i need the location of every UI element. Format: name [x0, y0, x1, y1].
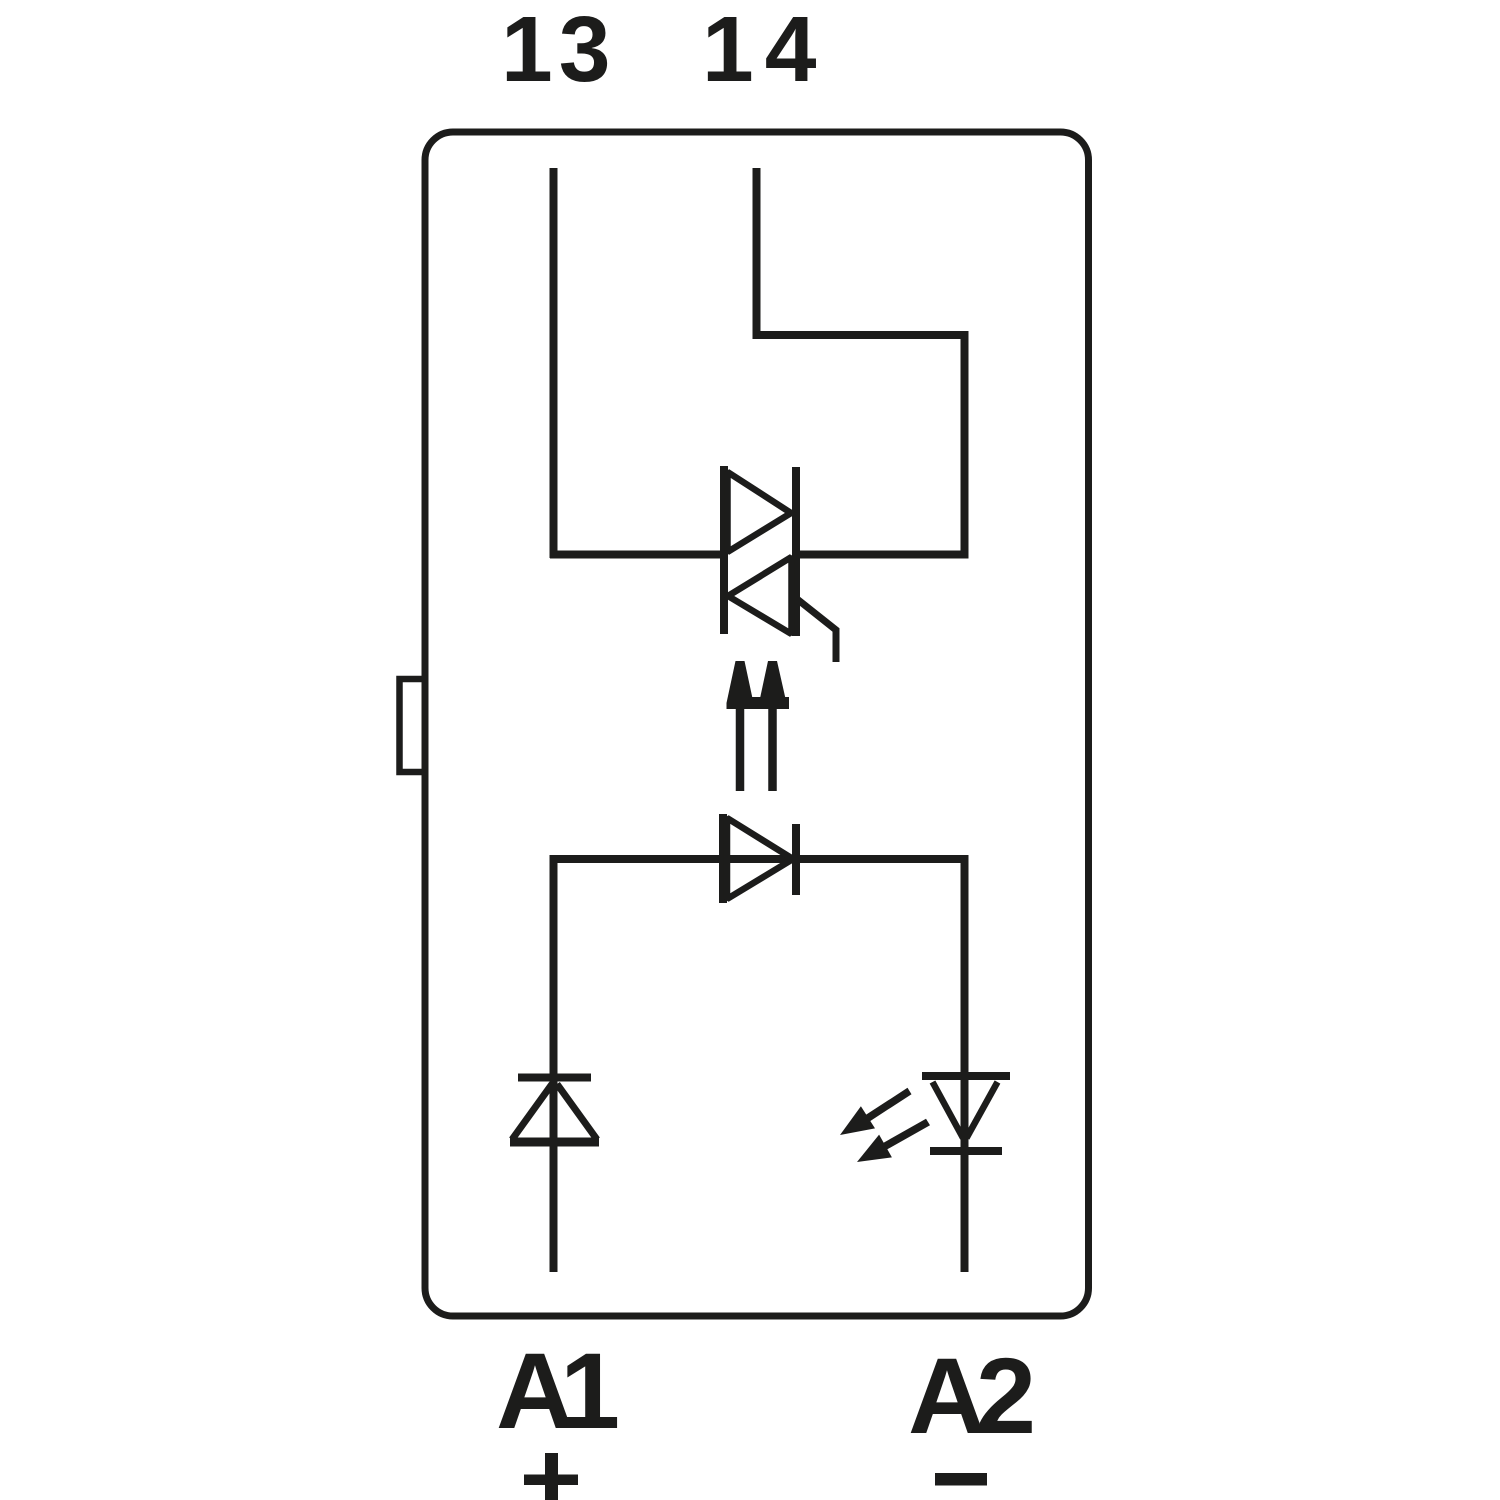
- series diode D1 cathode bar: [792, 824, 800, 895]
- LED arrow 2 head: [857, 1135, 892, 1162]
- wire 14 horizontal: [753, 331, 969, 339]
- series diode D1 triangle: [727, 818, 793, 899]
- optocoupler arrow shaft left: [736, 700, 745, 791]
- LED arrow 2 shaft: [880, 1119, 930, 1152]
- triac U1 lower triangle: [728, 557, 792, 634]
- diode D2 triangle right side: [557, 1084, 597, 1140]
- wire A1 vertical: [550, 855, 558, 1272]
- LED D3 cathode bar: [930, 1147, 1002, 1155]
- wire right drop: [961, 331, 969, 558]
- svg-text:14: 14: [702, 0, 827, 101]
- enclosure box: [425, 132, 1089, 1316]
- wire from terminal 14: [753, 168, 761, 339]
- diode D2 triangle left side: [512, 1084, 552, 1140]
- triac U1 left bar: [720, 466, 728, 634]
- diode D2 triangle base: [510, 1138, 599, 1147]
- LED D3 triangle right side: [967, 1082, 998, 1138]
- optocoupler arrow head left: [727, 661, 754, 709]
- triac gate lead: [797, 599, 836, 662]
- wire A2 vertical: [961, 855, 969, 1272]
- LED arrow 1 head: [840, 1106, 875, 1135]
- optocoupler arrow base bar: [728, 697, 789, 709]
- wire triac right to node: [792, 551, 969, 559]
- svg-text:13: 13: [501, 0, 616, 101]
- connector tab: [400, 679, 426, 772]
- optocoupler arrow shaft right: [768, 700, 777, 791]
- plus sign vertical: [545, 1453, 558, 1500]
- LED D3 base bar: [922, 1072, 1010, 1080]
- svg-text:A2: A2: [908, 1335, 1032, 1456]
- input horizontal wire: [550, 855, 969, 863]
- optocoupler arrow head right: [759, 661, 787, 709]
- diode D2 cathode bar: [518, 1074, 591, 1082]
- minus sign: [935, 1473, 987, 1486]
- plus sign horizontal: [524, 1475, 578, 1486]
- series diode D1 anode bar: [719, 814, 727, 903]
- svg-text:A1: A1: [496, 1330, 618, 1451]
- LED arrow 1 shaft: [863, 1088, 912, 1123]
- wire to triac left: [550, 551, 727, 559]
- wire from terminal 13: [550, 168, 558, 558]
- LED D3 triangle left side: [933, 1082, 964, 1138]
- triac U1 right bar: [792, 467, 800, 636]
- triac U1 upper triangle: [728, 472, 792, 552]
